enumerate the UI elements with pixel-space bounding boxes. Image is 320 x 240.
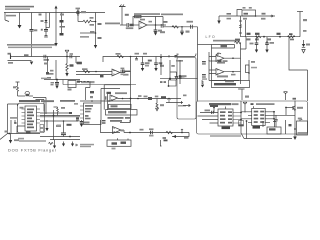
wire clock bus left bbox=[240, 101, 242, 133]
node bias junction bbox=[95, 13, 97, 46]
label bias values bbox=[47, 70, 54, 79]
resistor R7 bbox=[172, 26, 179, 28]
diode D3 in box bbox=[179, 60, 187, 84]
battery clip J1 bbox=[5, 13, 16, 22]
capacitor C21 with ground bbox=[265, 37, 274, 53]
BBD delay box bbox=[212, 79, 250, 88]
wire CV rows bbox=[40, 113, 80, 117]
label smudge bbox=[80, 36, 89, 38]
capacitor C18 stack bbox=[202, 74, 207, 80]
diode D1 to ground bbox=[18, 13, 22, 29]
dashed link to pot bbox=[80, 82, 91, 101]
capacitor C7 to ground bbox=[180, 26, 189, 36]
wire rail to mixer bus bbox=[130, 57, 132, 123]
label 1K bbox=[171, 65, 175, 67]
ground arrow G4 bbox=[30, 62, 33, 65]
wire CV left loop bbox=[8, 104, 20, 134]
wire inner col bbox=[53, 110, 55, 140]
LED D5 bbox=[0, 120, 11, 140]
output box bbox=[107, 138, 131, 146]
caption BBD label bbox=[161, 14, 183, 16]
label on input row bbox=[24, 54, 29, 56]
transistor Q5 bbox=[293, 106, 303, 111]
wire row to R11 bbox=[76, 57, 82, 64]
marks under bbox=[18, 138, 24, 140]
label below node bbox=[268, 38, 272, 40]
ground arrow G9 bbox=[71, 142, 78, 147]
tick marks on bus bbox=[239, 21, 242, 33]
label MN3101 bbox=[210, 105, 218, 107]
wire to box D bottom bbox=[8, 126, 41, 134]
capacitor C2 bbox=[41, 13, 50, 37]
resistor R13 on rail bbox=[117, 55, 124, 57]
label 4u7 bbox=[125, 14, 129, 16]
wire stub to H bbox=[263, 120, 276, 127]
wire clock left inputs bbox=[198, 113, 219, 124]
ground arrow G7 bbox=[53, 140, 56, 149]
tick below box bbox=[238, 88, 241, 90]
ground arrow G5 bbox=[45, 120, 48, 131]
wire pot row bbox=[166, 101, 183, 104]
wire y121 row bbox=[40, 120, 78, 126]
switch section box bbox=[177, 54, 197, 120]
capacitor C23 bbox=[56, 121, 66, 137]
wire U1b output bbox=[120, 72, 131, 73]
pins box D bbox=[22, 109, 41, 123]
label In bbox=[8, 53, 12, 55]
arrow hollow bbox=[175, 77, 178, 80]
capacitor C15 input bbox=[106, 96, 108, 99]
resonator box H bbox=[267, 127, 281, 134]
input jack J2 bbox=[11, 55, 14, 60]
label R3 values bbox=[90, 17, 95, 26]
wire box corner above bbox=[120, 120, 130, 123]
small box K1 bbox=[168, 80, 176, 87]
wire U3a out bbox=[224, 57, 241, 59]
capacitor C25 with ground bbox=[80, 120, 90, 127]
resistor R27 mixer in bbox=[107, 92, 112, 94]
wire output loop bbox=[172, 133, 189, 137]
resistor R11 bbox=[77, 62, 82, 65]
xtal box G bbox=[297, 120, 308, 136]
capacitor C22 marks bbox=[102, 120, 106, 124]
+9V arrow bbox=[55, 6, 58, 13]
capacitor C17 stack bbox=[202, 61, 206, 65]
label offset bbox=[179, 76, 185, 78]
label 4K7 bbox=[164, 21, 168, 23]
footswitch box outline bbox=[63, 80, 136, 85]
capacitor C5 to ground bbox=[154, 25, 162, 36]
component blob row bbox=[69, 112, 72, 114]
label smudge2 bbox=[90, 31, 95, 33]
label on wire bbox=[205, 110, 211, 112]
T connector below box bbox=[240, 89, 250, 100]
label above wire bbox=[227, 13, 232, 19]
wire inner col2 bbox=[246, 120, 248, 138]
clock section box bbox=[197, 101, 308, 134]
wire LFO right bus bbox=[240, 16, 242, 37]
wire box A bottom bbox=[101, 120, 121, 133]
wire feed row bbox=[101, 88, 120, 90]
resistor box R8 bbox=[242, 7, 256, 16]
label 4K7 bbox=[140, 129, 144, 131]
label left of box D bbox=[20, 107, 24, 109]
caption power supply bbox=[5, 6, 34, 10]
wire right step bbox=[289, 37, 308, 101]
ground rail symbol top bbox=[119, 5, 126, 26]
resistor divider R1 R2 bbox=[60, 13, 66, 36]
resistor R10 to ground bbox=[65, 57, 73, 77]
pins box A left bbox=[80, 106, 84, 118]
resistor R12 bbox=[83, 70, 90, 72]
label above R13 bbox=[116, 53, 121, 55]
wire U3 inputs bbox=[209, 57, 216, 74]
label cap value bbox=[57, 125, 62, 127]
resistor R24 small bbox=[49, 142, 54, 144]
wire op-amp2 bottom input bbox=[76, 74, 112, 76]
capacitor C11 small bbox=[135, 57, 138, 60]
caption credits bbox=[80, 144, 94, 147]
IC box D flipflop bbox=[25, 106, 37, 131]
node junction bbox=[213, 107, 215, 113]
ground T symbol right bbox=[297, 12, 307, 37]
node junction input bbox=[66, 56, 68, 58]
wire U1a output bbox=[147, 24, 166, 26]
wire long row y101 bbox=[80, 100, 131, 102]
transistor Q2 blob bbox=[100, 75, 104, 77]
capacitor C20 with ground bbox=[250, 37, 259, 53]
arrow out bbox=[173, 135, 177, 138]
wire from rail down to ground bbox=[55, 13, 57, 44]
wire CV stub bbox=[17, 104, 19, 106]
wire left edge marks bbox=[286, 120, 292, 134]
op-amp U2b output bbox=[113, 127, 122, 134]
resistor R5 feedback bbox=[135, 15, 142, 17]
wire LFO left col bbox=[208, 52, 210, 81]
wire mid row bbox=[163, 26, 198, 28]
wire clock right vert bbox=[294, 101, 296, 137]
wire arrow right bbox=[183, 104, 190, 106]
IC box A BBD bbox=[84, 103, 102, 125]
resistor R6 input bbox=[130, 24, 134, 27]
wire junction row bbox=[285, 107, 293, 115]
wire left edge col bbox=[160, 54, 162, 75]
wire junction col bbox=[14, 120, 17, 124]
ground arrow G1 bbox=[54, 43, 57, 47]
label below wire bbox=[261, 18, 266, 20]
op-amp U3a bbox=[216, 55, 225, 64]
caption filter row bbox=[134, 13, 160, 15]
label marks lower left bbox=[10, 117, 17, 119]
pot wiper clock bbox=[243, 102, 247, 112]
resistor R22 with T top bbox=[13, 82, 20, 96]
pins box F left bbox=[241, 112, 252, 123]
capacitor C19 labels bbox=[247, 33, 251, 41]
wire U2a output row bbox=[118, 98, 182, 100]
node 9V label bbox=[39, 14, 42, 16]
label dark bbox=[251, 103, 254, 105]
label +9V right bbox=[76, 120, 80, 122]
node junction bbox=[95, 71, 97, 73]
wire clock right links bbox=[265, 111, 295, 122]
label above row bbox=[138, 95, 142, 97]
resistor R23 bbox=[54, 107, 66, 116]
wire CV feed B bbox=[36, 100, 45, 112]
label below bbox=[98, 37, 102, 39]
wire right bus down bbox=[197, 27, 199, 101]
wire clock bottom rail bbox=[241, 133, 292, 139]
wire LFO feed top bbox=[219, 10, 275, 17]
label out bbox=[163, 137, 167, 139]
label 2u2 bbox=[184, 137, 189, 139]
small box left bbox=[239, 121, 244, 127]
resistor R16 top bbox=[235, 39, 241, 48]
LED D4 bbox=[302, 40, 310, 53]
label R4 value bbox=[98, 23, 102, 25]
wire +9V rail bbox=[4, 12, 105, 14]
caption clock label bbox=[209, 103, 239, 105]
wire jack sleeve bbox=[8, 60, 32, 62]
node junction dot bbox=[169, 78, 171, 80]
IC box C bbox=[106, 110, 138, 115]
resistor R20 labels bbox=[277, 33, 281, 35]
outer frame box CV bbox=[18, 104, 45, 133]
transistor Q6 blob bbox=[169, 55, 178, 58]
tick marks bbox=[160, 58, 162, 65]
wire bias vertical bbox=[55, 60, 57, 80]
resistor R25 bbox=[166, 131, 173, 133]
wire LFO box edges bbox=[212, 48, 241, 84]
LFO box top lines bbox=[212, 45, 235, 49]
wire feedback top U1 bbox=[133, 17, 163, 26]
wire bus2 bbox=[245, 20, 247, 37]
capacitor C8 series bbox=[187, 21, 194, 29]
caption above LFO box bbox=[213, 40, 240, 42]
wire op-amp2 top input bbox=[76, 71, 112, 73]
trimmer wiper arrow bbox=[65, 50, 69, 56]
wire bypass rail y79 bbox=[41, 78, 80, 81]
capacitor C28 dashes bbox=[160, 81, 166, 83]
ground arrow G2 bbox=[94, 45, 97, 49]
capacitor C29 bbox=[274, 115, 277, 127]
capacitor C14 series mid bbox=[120, 68, 130, 76]
resistor R14 mini bbox=[148, 60, 152, 62]
IC box E clock bbox=[218, 107, 233, 130]
label SW bbox=[160, 65, 164, 67]
label above row bbox=[121, 130, 125, 132]
resistor R15 to ground bbox=[156, 99, 159, 111]
label plus bbox=[243, 18, 247, 20]
capacitor C27 polar bbox=[181, 129, 183, 133]
zener D2 bbox=[41, 13, 48, 28]
label near pot bbox=[183, 95, 187, 97]
wire LFO bottom rail bbox=[241, 36, 301, 38]
label resistor value bbox=[262, 13, 266, 15]
label top bbox=[176, 60, 183, 62]
label buffer caption bbox=[105, 23, 120, 25]
caption oscillator bbox=[256, 103, 275, 105]
label values under bbox=[126, 27, 134, 29]
wire switch column bbox=[170, 60, 177, 79]
wire supply rail mid bbox=[103, 54, 196, 63]
label near box G bbox=[298, 118, 302, 120]
capacitor C24 series bbox=[212, 111, 214, 114]
resistor R9 pulldown bbox=[44, 57, 49, 75]
op-amp U2a mixer bbox=[110, 92, 127, 101]
resistor R3 bbox=[78, 20, 96, 23]
label SW2 bbox=[160, 104, 164, 106]
IC box F oscillator bbox=[252, 106, 266, 128]
wire input row bbox=[13, 56, 80, 58]
capacitor C30 with ground bbox=[51, 80, 60, 89]
component blob row2 bbox=[76, 117, 79, 119]
resistor R26 column bbox=[241, 37, 258, 81]
resistor R18 with ground bbox=[201, 81, 204, 88]
label right bbox=[155, 96, 159, 98]
op-amp U1a bbox=[139, 19, 152, 29]
wire bottom left rails bbox=[40, 136, 80, 140]
relay box K2 bbox=[68, 81, 81, 91]
wire bottom row mid bbox=[160, 78, 198, 80]
label under box D bbox=[26, 131, 31, 133]
label under sleeve bbox=[8, 62, 13, 64]
wire U3b out bbox=[224, 71, 241, 76]
svg-text:DOD FX75B Flanger: DOD FX75B Flanger bbox=[8, 148, 57, 153]
labels above caps bbox=[135, 53, 148, 55]
capacitor C16 series bbox=[144, 96, 153, 100]
label dashes bbox=[178, 105, 186, 107]
label below C6 bbox=[160, 31, 165, 33]
resistor R19 bbox=[255, 33, 261, 41]
op-amp U3b bbox=[216, 69, 228, 78]
wire y141 bbox=[19, 140, 46, 142]
ground arrow G8 bbox=[62, 142, 65, 147]
resistor R17 row bbox=[209, 60, 228, 62]
label above R12 bbox=[82, 68, 88, 70]
wire CV feed A bbox=[33, 98, 46, 115]
label under output box bbox=[112, 148, 116, 150]
capacitor C9 series bbox=[44, 55, 50, 61]
IC box B bbox=[109, 104, 132, 108]
pot wiper mark bbox=[161, 96, 171, 102]
capacitor C13 with ground bbox=[154, 57, 162, 72]
wire bus verticals bbox=[101, 85, 107, 110]
capacitor C4 input bbox=[127, 23, 129, 27]
ground arrow G6 bbox=[9, 134, 19, 144]
capacitor C6 series bbox=[161, 24, 163, 28]
wire LFO bottom bbox=[209, 80, 239, 82]
wire input U1 bbox=[120, 24, 130, 26]
wire y136 inner bbox=[210, 135, 241, 137]
wire U2b out row bbox=[121, 130, 189, 133]
label on-off bbox=[90, 91, 94, 98]
transistor Q3 LFO bbox=[216, 53, 221, 56]
wire box right edge bus bbox=[198, 44, 212, 46]
capacitor C12 with ground bbox=[141, 57, 150, 72]
wire end tick bbox=[270, 15, 273, 17]
transistor Q4 bbox=[18, 91, 34, 96]
resistor R21 bbox=[288, 33, 295, 40]
ground arrow G10 bbox=[293, 137, 297, 141]
capacitor C1 on long vertical bbox=[30, 13, 38, 57]
capacitor C26 series bbox=[149, 128, 154, 136]
wire stub right bbox=[160, 140, 168, 147]
svg-text:LFO: LFO bbox=[206, 35, 217, 39]
capacitor C10 series bbox=[70, 53, 74, 58]
op-amp U1b bbox=[112, 69, 129, 76]
transistor Q1 bbox=[76, 8, 87, 22]
pot wiper into BBD bbox=[284, 92, 297, 100]
footswitch contact boxes bbox=[40, 125, 44, 132]
wire mixer top bus bbox=[104, 84, 130, 86]
pins box E right bbox=[233, 113, 241, 124]
caption control voltage bbox=[19, 100, 78, 105]
ground arrow G3 bbox=[217, 16, 220, 24]
wire to op-amp bbox=[134, 24, 139, 26]
wire buffer out bbox=[80, 32, 96, 34]
caption flanging note bbox=[7, 44, 55, 48]
caption below boxes bbox=[108, 117, 131, 122]
